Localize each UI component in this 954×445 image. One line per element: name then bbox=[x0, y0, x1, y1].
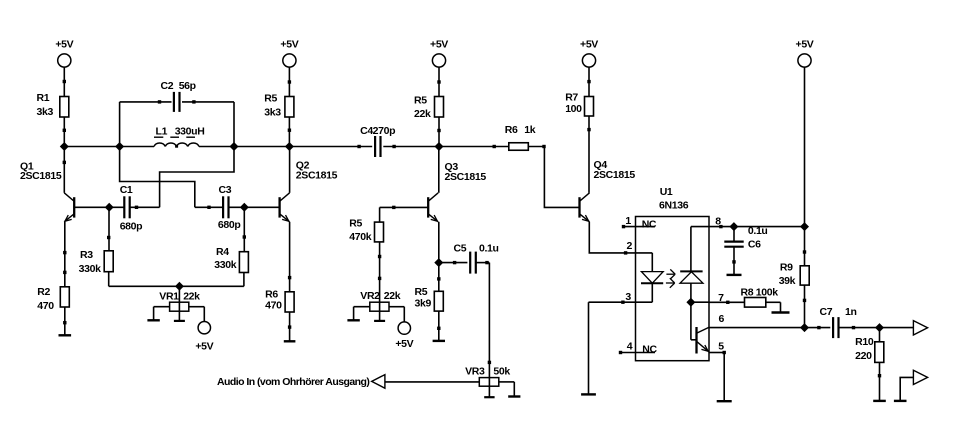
capacitor C5 0.1u bbox=[454, 242, 499, 273]
svg-text:C2: C2 bbox=[161, 80, 174, 92]
svg-text:1k: 1k bbox=[524, 124, 535, 136]
wire cross-couple right (C2-right to C1) bbox=[160, 147, 234, 208]
wire main rail C4 to R6 bbox=[383, 145, 509, 148]
svg-text:8: 8 bbox=[715, 215, 721, 227]
light arrows inside U1 bbox=[666, 269, 675, 287]
wire Q2 collector bbox=[289, 147, 291, 193]
pin 8 wire to Vcc node bbox=[709, 215, 805, 228]
svg-text:C1: C1 bbox=[120, 184, 133, 196]
svg-text:1n: 1n bbox=[845, 306, 857, 318]
resistor R5 22k bbox=[414, 94, 444, 120]
node Q3 emitter junction bbox=[435, 259, 443, 267]
node Q1 base junction bbox=[105, 204, 113, 212]
svg-text:39k: 39k bbox=[779, 275, 796, 287]
svg-text:C4: C4 bbox=[360, 125, 373, 137]
wire Q3 base to R5 470k bbox=[380, 206, 429, 222]
svg-text:C7: C7 bbox=[820, 306, 833, 318]
wire C2 left branch bbox=[120, 100, 172, 146]
capacitor C2 56p bbox=[161, 80, 196, 112]
svg-text:470: 470 bbox=[37, 300, 54, 312]
transistor Q1 2SC1815 bbox=[20, 160, 74, 222]
svg-text:22k: 22k bbox=[384, 290, 401, 302]
ground R10 bbox=[873, 362, 886, 401]
svg-text:220: 220 bbox=[855, 350, 872, 362]
svg-text:VR1: VR1 bbox=[159, 290, 179, 302]
wire Q2 base to R4 bbox=[243, 207, 246, 251]
wire R5 to rail bbox=[288, 117, 291, 147]
ground R2 bbox=[59, 307, 72, 335]
wire R4 to VR1 row bbox=[179, 273, 244, 287]
wire R5 470k to VR2 bbox=[378, 242, 381, 321]
svg-text:50k: 50k bbox=[493, 365, 510, 377]
svg-text:56p: 56p bbox=[179, 80, 196, 92]
output terminal triangle 1 bbox=[913, 321, 927, 335]
wire VR1 right terminal to +5V bbox=[189, 307, 205, 322]
ground R5 3k9 bbox=[433, 311, 445, 341]
wire C7 to output bbox=[839, 326, 914, 329]
svg-text:Audio In (vom Ohrhörer Ausgang: Audio In (vom Ohrhörer Ausgang) bbox=[217, 376, 369, 388]
node Q2 base junction bbox=[241, 204, 249, 212]
photodiode inside U1 bbox=[680, 227, 709, 303]
wire cross wire to C3 left bbox=[195, 206, 223, 209]
wire C5 to VR3 wiper bbox=[476, 261, 491, 397]
svg-text:3k9: 3k9 bbox=[415, 297, 432, 309]
node rail C2-left junction bbox=[116, 143, 124, 151]
wire R5 22k to rail bbox=[437, 117, 440, 147]
wire C2 right branch bbox=[182, 100, 234, 146]
svg-text:NC: NC bbox=[642, 343, 657, 355]
wire Q1 base to R3 bbox=[107, 207, 110, 251]
svg-text:R5: R5 bbox=[414, 94, 427, 106]
power +5V supply (R1 branch) bbox=[55, 39, 73, 67]
svg-text:R4: R4 bbox=[216, 246, 229, 258]
svg-text:+5V: +5V bbox=[580, 39, 598, 51]
wire Q2 emitter to R6 bbox=[288, 222, 291, 292]
IC body U1 bbox=[636, 217, 710, 361]
svg-text:U1: U1 bbox=[660, 186, 673, 198]
ground R8 bbox=[766, 302, 790, 312]
svg-text:R10: R10 bbox=[855, 336, 874, 348]
capacitor C1 680p bbox=[120, 184, 143, 232]
svg-text:R1: R1 bbox=[37, 92, 50, 104]
label Audio In bbox=[217, 376, 369, 388]
svg-text:7: 7 bbox=[718, 292, 724, 304]
svg-text:2: 2 bbox=[627, 240, 633, 252]
wire R3 to VR1 row bbox=[109, 272, 180, 287]
power +5V supply (right branch) bbox=[796, 39, 814, 67]
svg-text:680p: 680p bbox=[120, 220, 143, 232]
transistor Q4 2SC1815 bbox=[580, 159, 636, 222]
svg-text:470: 470 bbox=[265, 299, 282, 311]
pin 7 wire to R8 bbox=[709, 292, 745, 304]
wire +5V to R1 bbox=[63, 67, 66, 97]
svg-text:R5: R5 bbox=[415, 286, 428, 298]
svg-text:L1: L1 bbox=[156, 126, 168, 138]
wire rail square before C4 bbox=[357, 145, 360, 148]
wire C1 right to cross wire bbox=[130, 206, 160, 209]
resistor R7 100 bbox=[565, 92, 593, 117]
capacitor C4 270p bbox=[360, 125, 395, 157]
svg-text:4: 4 bbox=[627, 340, 633, 352]
potentiometer VR1 22k bbox=[154, 286, 201, 321]
svg-text:3: 3 bbox=[625, 291, 631, 303]
resistor R1 3k3 bbox=[37, 92, 69, 118]
op-amp U1 6N136 labels bbox=[659, 186, 689, 211]
ground R6 470 bbox=[284, 312, 296, 341]
svg-text:R5: R5 bbox=[349, 217, 362, 229]
wire Q1 emitter to R2 bbox=[63, 222, 66, 287]
LED emitter diode inside U1 bbox=[636, 253, 664, 302]
wire +5V to opto Vcc node bbox=[804, 67, 806, 227]
node U1 internal pin7 junction bbox=[687, 298, 695, 306]
wire C3 right to Q2 base bbox=[229, 206, 280, 208]
ground VR1 left terminal bbox=[147, 307, 159, 321]
wire output 2 ground return bbox=[900, 377, 913, 401]
transistor Q2 2SC1815 bbox=[280, 159, 338, 221]
svg-text:+5V: +5V bbox=[796, 39, 814, 51]
svg-text:+5V: +5V bbox=[280, 39, 298, 51]
wire Q4 emitter to U1 pin2 bbox=[589, 222, 635, 255]
potentiometer VR3 50k bbox=[465, 365, 510, 386]
resistor R6 1k bbox=[505, 124, 536, 150]
svg-text:0.1u: 0.1u bbox=[479, 242, 499, 254]
svg-text:330k: 330k bbox=[79, 263, 101, 275]
svg-text:2SC1815: 2SC1815 bbox=[445, 171, 487, 183]
svg-text:100: 100 bbox=[565, 103, 582, 115]
svg-text:330uH: 330uH bbox=[175, 126, 205, 138]
wire main rail L1 to C4 bbox=[199, 146, 372, 148]
svg-text:2SC1815: 2SC1815 bbox=[20, 170, 62, 182]
transistor Q3 2SC1815 bbox=[428, 161, 486, 222]
ground C6 bbox=[727, 247, 742, 275]
svg-text:1: 1 bbox=[625, 215, 631, 227]
svg-text:R5: R5 bbox=[264, 93, 277, 105]
power +5V supply (R5a branch) bbox=[280, 39, 298, 67]
wire to C5 bbox=[439, 261, 468, 264]
node rail C2-right junction bbox=[230, 143, 238, 151]
svg-text:C5: C5 bbox=[454, 242, 467, 254]
svg-text:2SC1815: 2SC1815 bbox=[594, 169, 636, 181]
resistor R6 470 bbox=[265, 289, 294, 312]
potentiometer VR2 22k bbox=[354, 290, 401, 321]
svg-text:680p: 680p bbox=[218, 219, 241, 231]
svg-text:6N136: 6N136 bbox=[659, 200, 689, 212]
node rail-Q3 junction bbox=[435, 143, 443, 151]
svg-text:R9: R9 bbox=[780, 262, 793, 274]
pin 6 wire to C7 bbox=[709, 313, 830, 329]
svg-text:+5V: +5V bbox=[430, 39, 448, 51]
svg-text:0.1u: 0.1u bbox=[748, 225, 768, 237]
phototransistor inside U1 bbox=[691, 302, 709, 353]
ground VR3 right terminal bbox=[508, 382, 520, 397]
wire R1 to rail bbox=[63, 117, 66, 147]
svg-text:2SC1815: 2SC1815 bbox=[296, 169, 338, 181]
svg-text:+5V: +5V bbox=[395, 338, 413, 350]
inductor L1 330uH bbox=[154, 126, 204, 148]
wire R6 to Q4 base bbox=[528, 145, 579, 208]
pin 2 label bbox=[627, 240, 633, 252]
wire Q3 emitter bbox=[438, 222, 440, 263]
svg-text:470k: 470k bbox=[349, 231, 371, 243]
pin 1 NC stub bbox=[622, 215, 657, 231]
power +5V at VR2 bbox=[395, 322, 413, 350]
wire main rail Q1 to L1 bbox=[64, 146, 154, 148]
resistor R5 470k bbox=[349, 217, 383, 243]
ground U1 pin 5 bbox=[717, 353, 732, 402]
node output junction bbox=[876, 324, 884, 332]
svg-text:+5V: +5V bbox=[55, 39, 73, 51]
output terminal triangle 2 bbox=[913, 370, 927, 384]
resistor R5 3k3 bbox=[264, 93, 294, 119]
svg-text:R6: R6 bbox=[505, 124, 518, 136]
node pin8-C6 junction bbox=[730, 223, 738, 231]
svg-text:VR2: VR2 bbox=[360, 290, 380, 302]
input terminal triangle bbox=[372, 375, 385, 389]
node rail-Q2 junction bbox=[286, 143, 294, 151]
pin 5 wire bbox=[709, 340, 726, 354]
svg-text:R2: R2 bbox=[37, 286, 50, 298]
ground VR3 wiper bbox=[484, 396, 494, 398]
resistor R8 100k bbox=[741, 286, 779, 307]
svg-text:330k: 330k bbox=[214, 259, 236, 271]
wire R7 to Q4 collector bbox=[587, 116, 590, 193]
svg-text:22k: 22k bbox=[414, 108, 431, 120]
power +5V at VR1 bbox=[195, 322, 213, 353]
svg-text:3k3: 3k3 bbox=[37, 106, 54, 118]
pin 4 NC stub bbox=[619, 340, 658, 355]
svg-text:+5V: +5V bbox=[195, 340, 213, 352]
svg-text:6: 6 bbox=[719, 313, 725, 325]
ground output 2 bbox=[894, 400, 907, 402]
ground U1 pin 3 bbox=[581, 302, 596, 394]
svg-text:C3: C3 bbox=[219, 184, 232, 196]
wire VR3 right to ground bbox=[499, 381, 515, 383]
svg-text:270p: 270p bbox=[373, 125, 396, 137]
node Vcc-R9 junction bbox=[801, 223, 809, 231]
svg-text:C6: C6 bbox=[748, 239, 761, 251]
svg-text:R3: R3 bbox=[80, 249, 93, 261]
svg-text:3k3: 3k3 bbox=[264, 106, 281, 118]
pin 3 stub wire bbox=[589, 291, 636, 304]
svg-text:5: 5 bbox=[718, 340, 724, 352]
capacitor C7 1n bbox=[820, 306, 857, 338]
svg-text:VR3: VR3 bbox=[465, 365, 485, 377]
svg-text:NC: NC bbox=[642, 219, 657, 231]
power +5V supply (R5b branch) bbox=[430, 39, 448, 67]
node VR1 wiper junction bbox=[176, 283, 184, 291]
resistor R10 220 bbox=[855, 328, 884, 363]
wire Q1 base row bbox=[74, 206, 124, 208]
resistor R2 470 bbox=[37, 286, 69, 312]
wire Q3 collector bbox=[438, 147, 440, 193]
wire pin7 internal bbox=[691, 301, 709, 303]
svg-text:R7: R7 bbox=[565, 92, 578, 104]
wire cross-couple left (C2-left to C3) bbox=[120, 147, 195, 208]
wire +5V to R7 bbox=[587, 67, 590, 97]
wire +5V to R5 3k3 bbox=[288, 67, 291, 97]
wire Q1 collector bbox=[63, 147, 66, 193]
svg-text:22k: 22k bbox=[183, 290, 200, 302]
resistor R3 330k bbox=[79, 249, 114, 275]
resistor R5 3k9 bbox=[415, 286, 444, 311]
resistor R9 39k bbox=[779, 227, 810, 328]
node rail-Q1 junction bbox=[61, 143, 69, 151]
resistor R4 330k bbox=[214, 246, 248, 273]
ground VR2 left terminal bbox=[347, 307, 359, 321]
wire VR2 right terminal to +5V bbox=[389, 307, 404, 322]
wire +5V to R5 22k bbox=[437, 67, 440, 97]
capacitor C3 680p bbox=[218, 184, 241, 231]
capacitor C6 0.1u bbox=[724, 225, 767, 250]
wire input to VR3 bbox=[385, 381, 479, 383]
svg-text:R8 100k: R8 100k bbox=[741, 286, 779, 298]
node pin6-R9 junction bbox=[801, 324, 809, 332]
power +5V supply (R7 branch) bbox=[580, 39, 598, 67]
wire Q3 emitter to R5 3k9 bbox=[437, 263, 440, 292]
